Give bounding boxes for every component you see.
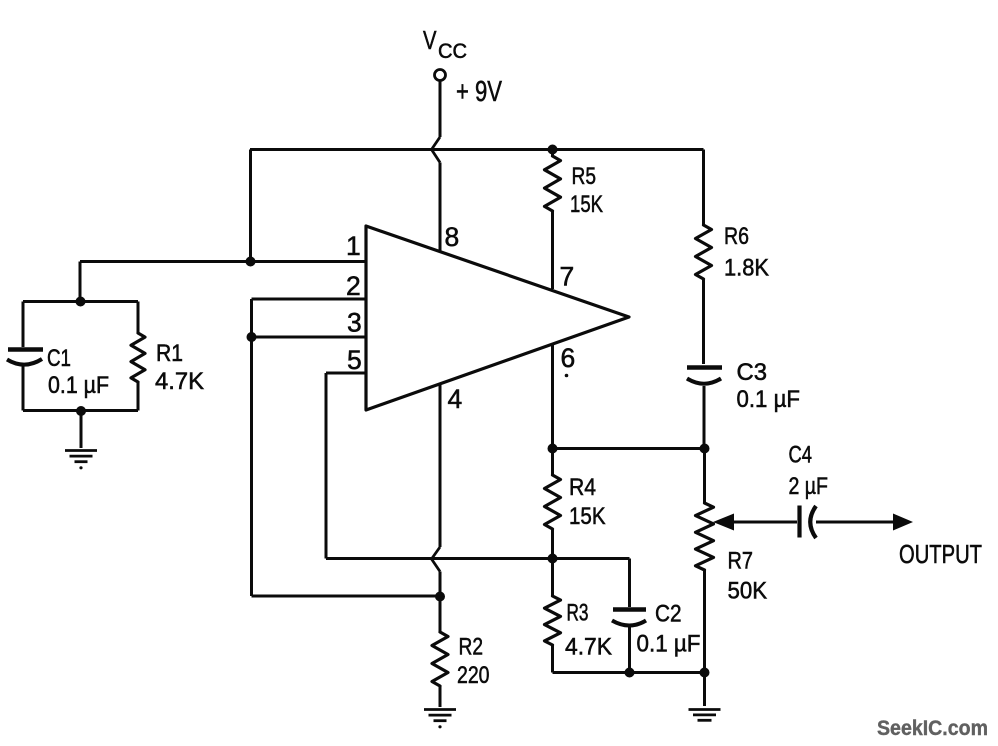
svg-text:5: 5 — [347, 345, 362, 375]
svg-text:OUTPUT: OUTPUT — [899, 539, 982, 569]
svg-text:C1: C1 — [47, 345, 71, 372]
svg-text:220: 220 — [457, 662, 490, 689]
svg-text:50K: 50K — [728, 578, 768, 605]
svg-text:R4: R4 — [569, 474, 596, 501]
svg-text:15K: 15K — [570, 191, 603, 218]
svg-text:SeekIC.com: SeekIC.com — [877, 716, 988, 740]
svg-text:R7: R7 — [728, 548, 754, 575]
svg-text:R6: R6 — [724, 223, 749, 250]
svg-text:V: V — [423, 25, 437, 55]
svg-text:4: 4 — [448, 384, 463, 414]
svg-text:8: 8 — [445, 222, 460, 252]
svg-text:0.1 µF: 0.1 µF — [637, 631, 701, 658]
svg-text:C4: C4 — [789, 442, 813, 469]
svg-text:CC: CC — [438, 40, 467, 63]
svg-text:3: 3 — [347, 308, 362, 338]
svg-text:2: 2 — [346, 271, 361, 301]
svg-text:+ 9V: + 9V — [456, 76, 502, 108]
svg-text:7: 7 — [560, 262, 575, 292]
svg-text:R3: R3 — [567, 600, 589, 627]
svg-text:1: 1 — [346, 231, 361, 261]
svg-text:2 µF: 2 µF — [789, 473, 829, 500]
svg-text:C3: C3 — [737, 359, 768, 386]
svg-text:R1: R1 — [156, 340, 183, 367]
svg-text:1.8K: 1.8K — [724, 255, 769, 282]
svg-text:15K: 15K — [569, 503, 606, 530]
svg-text:0.1 µF: 0.1 µF — [737, 386, 801, 413]
svg-text:C2: C2 — [655, 601, 682, 628]
svg-text:4.7K: 4.7K — [565, 634, 612, 661]
svg-text:6: 6 — [561, 343, 576, 373]
svg-text:4.7K: 4.7K — [155, 368, 204, 395]
svg-text:0.1 µF: 0.1 µF — [48, 372, 109, 399]
svg-text:R2: R2 — [459, 634, 484, 661]
svg-text:R5: R5 — [572, 163, 597, 190]
